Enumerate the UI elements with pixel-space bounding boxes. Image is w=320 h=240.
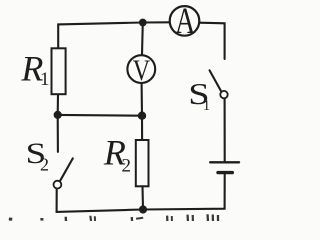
wire voltmeter bottom lead [141, 84, 143, 116]
battery short plate (-) [218, 171, 232, 174]
node top junction [139, 19, 147, 27]
node bottom junction [139, 205, 147, 213]
wire top right (ammeter to right corner and down) [200, 23, 225, 59]
wire middle horizontal [58, 114, 142, 117]
svg-text:1: 1 [40, 69, 50, 90]
switch S2 pivot circle [54, 181, 62, 189]
wire S2 up to middle junction [57, 115, 59, 152]
battery long plate (+) [210, 161, 239, 163]
node middle-left junction [54, 111, 62, 119]
resistor R1 body [52, 48, 66, 94]
resistor R2 body [136, 140, 149, 186]
svg-text:2: 2 [122, 156, 132, 177]
svg-text:2: 2 [40, 154, 49, 174]
wire top mid (junction to ammeter) [143, 21, 170, 23]
wire S1 to battery [224, 99, 226, 162]
switch S2 lever [60, 158, 73, 181]
switch S1 lever [210, 70, 222, 91]
ammeter U-A circle [170, 6, 200, 36]
wire bottom left [57, 189, 143, 212]
svg-text:A: A [175, 1, 196, 42]
voltmeter U-V circle [127, 55, 155, 83]
node middle-right junction [138, 112, 146, 120]
wire top left (corner above R1 to top junction) [58, 23, 143, 49]
wire R2 top lead [141, 116, 143, 140]
wire battery to bottom right corner [143, 174, 225, 209]
wire voltmeter top lead [141, 23, 144, 55]
wire R2 bottom lead [141, 186, 144, 209]
switch S1 pivot circle [220, 91, 227, 98]
svg-text:V: V [133, 53, 151, 86]
cut-off caption text marks along bottom edge [9, 218, 13, 221]
wire R1 bottom lead [57, 94, 59, 115]
svg-text:1: 1 [203, 98, 211, 114]
